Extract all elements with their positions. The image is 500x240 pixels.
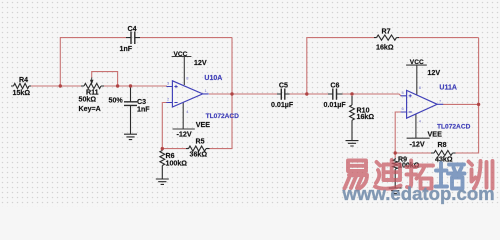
svg-text:43kΩ: 43kΩ [435,156,453,164]
svg-text:TL072ACD: TL072ACD [437,124,471,131]
svg-text:1nF: 1nF [137,106,150,114]
svg-text:50%: 50% [109,97,124,105]
svg-text:VCC: VCC [174,51,188,58]
svg-text:C6: C6 [330,81,339,89]
svg-text:C4: C4 [128,25,137,33]
svg-text:VEE: VEE [428,130,443,139]
svg-text:VEE: VEE [196,120,211,129]
svg-text:0.01µF: 0.01µF [324,101,347,109]
svg-text:U11A: U11A [439,84,457,91]
svg-text:R7: R7 [382,28,391,36]
svg-text:Key=A: Key=A [79,105,101,113]
svg-text:-12V: -12V [410,140,425,149]
svg-text:C5: C5 [279,81,288,89]
svg-text:50kΩ: 50kΩ [79,96,97,104]
svg-text:12V: 12V [194,58,207,67]
svg-text:www.edatop.com: www.edatop.com [342,183,495,204]
svg-text:VCC: VCC [410,59,424,66]
svg-text:R8: R8 [438,141,447,149]
svg-text:12V: 12V [427,68,440,77]
svg-text:U10A: U10A [204,75,222,82]
svg-text:1nF: 1nF [120,45,133,53]
svg-text:R4: R4 [19,76,28,84]
svg-text:15kΩ: 15kΩ [13,89,31,97]
svg-text:R5: R5 [196,138,205,146]
svg-text:16kΩ: 16kΩ [357,113,375,121]
svg-text:TL072ACD: TL072ACD [206,113,240,120]
svg-text:-12V: -12V [177,130,192,139]
svg-text:16kΩ: 16kΩ [376,43,394,51]
svg-text:36kΩ: 36kΩ [190,151,208,159]
svg-text:100kΩ: 100kΩ [166,160,188,168]
svg-text:0.01µF: 0.01µF [271,101,294,109]
